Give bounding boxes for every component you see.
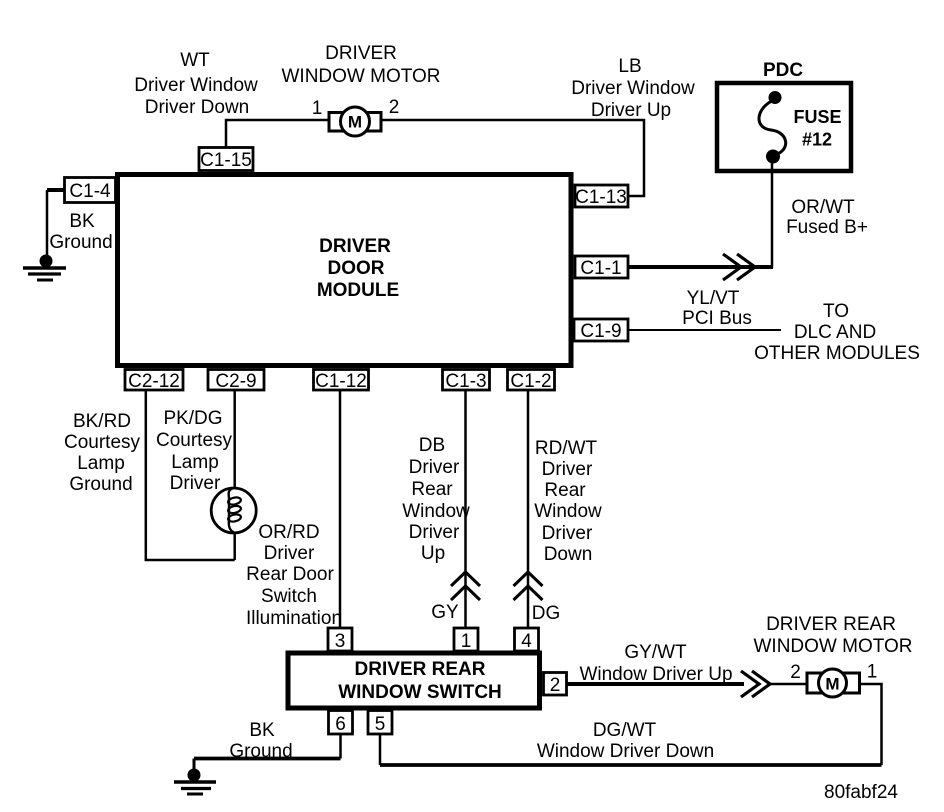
connector C1-1 xyxy=(575,256,628,279)
svg-text:Driver: Driver xyxy=(264,543,315,564)
switch pin 3 xyxy=(328,628,352,652)
label LB Driver Window Driver Up xyxy=(571,56,695,121)
label DG/WT Window Driver Down xyxy=(537,720,714,762)
svg-text:DG: DG xyxy=(532,603,561,624)
wire fuse to B+ corner xyxy=(771,161,774,268)
svg-text:C1-4: C1-4 xyxy=(69,181,111,202)
switch pin 2 xyxy=(544,673,567,697)
wire C2-12 courtesy lamp ground xyxy=(146,390,235,560)
svg-text:2: 2 xyxy=(550,675,561,696)
svg-text:Fused B+: Fused B+ xyxy=(786,217,868,238)
svg-text:Window: Window xyxy=(402,501,470,522)
svg-text:WT: WT xyxy=(180,50,210,71)
svg-text:Courtesy: Courtesy xyxy=(64,432,141,453)
svg-text:C1-3: C1-3 xyxy=(445,371,486,392)
ground G1 xyxy=(23,255,66,281)
svg-text:Down: Down xyxy=(544,544,593,565)
svg-text:6: 6 xyxy=(335,714,346,735)
svg-text:C1-9: C1-9 xyxy=(580,321,621,342)
svg-text:Driver Down: Driver Down xyxy=(145,97,250,118)
label GY/WT Window Driver Up xyxy=(579,642,732,685)
wire switch pin 2 heavy xyxy=(567,682,807,686)
svg-text:Driver: Driver xyxy=(542,523,593,544)
svg-text:Driver: Driver xyxy=(409,457,460,478)
svg-text:1: 1 xyxy=(312,98,323,119)
wire C1-3 to switch pin 1 xyxy=(464,390,467,628)
chevron connector on DG wire xyxy=(514,572,543,600)
wire DG/WT window driver down heavy xyxy=(380,734,882,765)
svg-text:Ground: Ground xyxy=(49,232,112,253)
svg-text:Driver Window: Driver Window xyxy=(134,75,258,96)
svg-text:BK/RD: BK/RD xyxy=(73,411,131,432)
label TO DLC AND OTHER MODULES xyxy=(754,301,920,364)
svg-text:WINDOW SWITCH: WINDOW SWITCH xyxy=(338,682,502,703)
wire C1-12 to switch pin 3 xyxy=(339,390,342,628)
label DRIVER WINDOW MOTOR xyxy=(281,43,440,87)
connector C2-9 xyxy=(208,370,264,393)
motor M1 driver window motor xyxy=(329,107,381,136)
svg-text:M: M xyxy=(825,675,839,694)
svg-text:1: 1 xyxy=(867,662,878,683)
driver rear window switch box xyxy=(288,653,540,708)
svg-text:Switch: Switch xyxy=(261,586,317,607)
svg-text:LB: LB xyxy=(618,56,641,77)
svg-text:DG/WT: DG/WT xyxy=(593,720,657,741)
label DB Driver Rear Window Driver Up xyxy=(402,435,470,564)
connector C1-2 xyxy=(508,370,555,393)
label OR/WT Fused B+ xyxy=(786,197,868,238)
svg-text:Lamp: Lamp xyxy=(171,452,219,473)
svg-text:OTHER MODULES: OTHER MODULES xyxy=(754,343,920,364)
chevron connector on GY wire xyxy=(451,572,480,600)
svg-text:C1-13: C1-13 xyxy=(575,187,627,208)
svg-text:4: 4 xyxy=(521,631,532,652)
svg-text:1: 1 xyxy=(461,631,472,652)
svg-text:WINDOW MOTOR: WINDOW MOTOR xyxy=(753,636,912,657)
wire C2-9 to lamp xyxy=(233,390,236,560)
motor M2 driver rear window motor xyxy=(807,669,860,697)
svg-text:Ground: Ground xyxy=(69,474,132,495)
PDC box xyxy=(717,60,851,171)
svg-text:Rear Door: Rear Door xyxy=(246,564,334,585)
svg-text:Rear: Rear xyxy=(544,480,586,501)
svg-text:Ground: Ground xyxy=(229,741,292,762)
svg-text:5: 5 xyxy=(375,714,386,735)
svg-text:DRIVER REAR: DRIVER REAR xyxy=(766,614,896,635)
svg-text:Driver: Driver xyxy=(409,522,460,543)
svg-text:2: 2 xyxy=(389,97,400,118)
svg-text:Driver: Driver xyxy=(542,459,593,480)
svg-text:TO: TO xyxy=(823,301,849,322)
wire C1-9 PCI bus xyxy=(629,329,781,331)
svg-text:#12: #12 xyxy=(802,130,832,150)
switch pin 5 xyxy=(368,711,392,736)
svg-text:Up: Up xyxy=(421,543,445,564)
connector C1-12 xyxy=(314,370,369,393)
inline connector chevrons on GY/WT wire xyxy=(741,671,770,697)
svg-text:OR/RD: OR/RD xyxy=(258,522,319,543)
svg-text:DRIVER REAR: DRIVER REAR xyxy=(355,659,486,680)
svg-text:Driver: Driver xyxy=(170,473,221,494)
ground G2 xyxy=(174,769,216,795)
label BK/RD Courtesy Lamp Ground xyxy=(64,411,141,495)
fuse F12 xyxy=(759,91,842,164)
svg-text:Driver Window: Driver Window xyxy=(571,78,695,99)
svg-text:GY: GY xyxy=(431,602,459,623)
svg-text:C1-2: C1-2 xyxy=(510,371,551,392)
label RD/WT Driver Rear Window Driver Down xyxy=(534,438,602,565)
svg-text:DLC AND: DLC AND xyxy=(794,322,876,343)
svg-text:DB: DB xyxy=(419,435,445,456)
svg-text:80fabf24: 80fabf24 xyxy=(824,782,898,803)
svg-text:Rear: Rear xyxy=(411,479,453,500)
svg-text:RD/WT: RD/WT xyxy=(535,438,598,459)
label WT Driver Window Driver Down xyxy=(134,50,258,118)
inline connector chevrons on B+ wire xyxy=(723,254,755,280)
wire motor M2 pin1 down xyxy=(860,684,882,765)
svg-text:Courtesy: Courtesy xyxy=(156,430,233,451)
svg-text:C1-12: C1-12 xyxy=(315,371,367,392)
svg-text:MODULE: MODULE xyxy=(317,280,399,301)
svg-text:OR/WT: OR/WT xyxy=(791,197,855,218)
svg-text:GY/WT: GY/WT xyxy=(624,642,687,663)
connector C1-13 xyxy=(575,185,628,208)
connector C1-9 xyxy=(574,319,628,342)
svg-text:C2-12: C2-12 xyxy=(128,371,180,392)
svg-text:Driver Up: Driver Up xyxy=(591,100,671,121)
svg-text:Window Driver Up: Window Driver Up xyxy=(579,664,732,685)
wire C1-4 to ground xyxy=(47,190,64,256)
svg-text:DRIVER: DRIVER xyxy=(319,236,391,257)
label PK/DG Courtesy Lamp Driver xyxy=(156,408,233,494)
svg-text:C1-15: C1-15 xyxy=(200,150,252,171)
svg-text:C1-1: C1-1 xyxy=(580,258,621,279)
svg-text:M: M xyxy=(348,113,362,132)
svg-text:3: 3 xyxy=(335,631,346,652)
driver door module box xyxy=(118,175,572,366)
svg-text:YL/VT: YL/VT xyxy=(687,288,740,309)
svg-text:PK/DG: PK/DG xyxy=(163,408,222,429)
svg-text:PCI Bus: PCI Bus xyxy=(682,308,752,329)
connector C1-4 xyxy=(65,178,116,203)
svg-text:BK: BK xyxy=(249,720,275,741)
wire motor M1 to C1-13 xyxy=(382,120,644,196)
svg-text:Window Driver Down: Window Driver Down xyxy=(537,741,714,762)
lamp courtesy lamp xyxy=(211,488,256,533)
label BK Ground bottom xyxy=(229,720,292,762)
svg-text:Illumination: Illumination xyxy=(246,608,342,629)
svg-text:BK: BK xyxy=(69,211,95,232)
switch pin 1 xyxy=(454,628,478,652)
svg-text:Lamp: Lamp xyxy=(77,453,125,474)
connector C1-3 xyxy=(443,370,490,393)
label DRIVER REAR WINDOW MOTOR xyxy=(753,614,912,657)
svg-text:2: 2 xyxy=(790,662,801,683)
label YL/VT PCI Bus xyxy=(682,288,752,329)
switch pin 4 xyxy=(515,628,539,652)
svg-text:DRIVER: DRIVER xyxy=(325,43,397,64)
svg-text:WINDOW MOTOR: WINDOW MOTOR xyxy=(281,66,440,87)
label OR/RD Driver Rear Door Switch Illumination xyxy=(246,522,342,629)
wire C1-15 to motor M1 xyxy=(226,120,328,148)
svg-text:FUSE: FUSE xyxy=(793,107,841,127)
switch pin 6 xyxy=(329,711,353,736)
label BK Ground left xyxy=(49,211,112,253)
svg-text:PDC: PDC xyxy=(763,60,803,81)
svg-text:Window: Window xyxy=(534,501,602,522)
wire C1-2 to switch pin 4 xyxy=(527,390,530,628)
connector C1-15 xyxy=(199,148,253,172)
svg-text:C2-9: C2-9 xyxy=(215,371,256,392)
connector C2-12 xyxy=(125,370,183,393)
wire C1-1 fused B+ heavy xyxy=(629,265,773,269)
svg-text:DOOR: DOOR xyxy=(328,258,385,279)
wire switch pin 6 to ground xyxy=(194,734,341,770)
